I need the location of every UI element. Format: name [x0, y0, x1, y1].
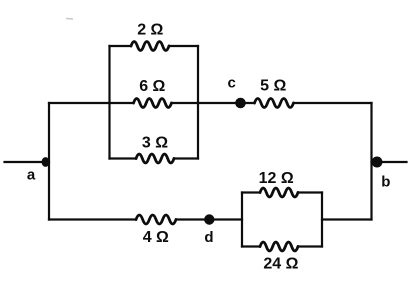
wire: bottom branch left segment — [49, 218, 136, 220]
node c junction dot — [235, 98, 246, 109]
svg-text:4 Ω: 4 Ω — [143, 229, 169, 246]
resistor 2-ohm — [131, 42, 169, 51]
wire: middle horizontal from 5-ohm to right corner — [294, 102, 372, 104]
svg-text:d: d — [204, 229, 213, 246]
svg-text:12 Ω: 12 Ω — [259, 170, 294, 187]
wire: 2-ohm row connectors — [110, 45, 199, 47]
wire: bottom parallel block left bus — [241, 193, 243, 247]
node b junction dot — [372, 157, 383, 168]
wire: middle horizontal (6-ohm branch feed, left) — [49, 102, 134, 104]
resistor 5-ohm — [255, 99, 294, 108]
stray scan smudge top-left — [66, 18, 73, 21]
svg-text:3 Ω: 3 Ω — [142, 135, 168, 152]
wire: block to right vertical — [322, 218, 372, 220]
svg-text:6 Ω: 6 Ω — [139, 78, 165, 95]
wire: middle horizontal between 6-ohm and node c — [172, 102, 255, 104]
wire: top parallel block left bus — [108, 46, 110, 159]
wire: 12-ohm row connectors — [242, 191, 322, 193]
wire: left lead to node a — [5, 161, 50, 163]
svg-text:24 Ω: 24 Ω — [263, 255, 298, 272]
resistor 6-ohm — [134, 99, 172, 108]
resistor 3-ohm — [136, 154, 174, 163]
wire: left vertical a riser — [48, 103, 50, 220]
wire: bottom branch 4-ohm to node d to block — [176, 218, 242, 220]
wire: node b lead right — [372, 161, 407, 163]
svg-text:5 Ω: 5 Ω — [260, 77, 286, 94]
wire: 24-ohm row connectors — [242, 245, 322, 247]
node d junction dot — [204, 214, 214, 224]
svg-text:b: b — [381, 174, 390, 191]
wire: right vertical — [370, 103, 372, 220]
resistor 4-ohm — [136, 215, 176, 224]
resistor 12-ohm — [260, 188, 298, 197]
wire: bottom parallel block right bus — [321, 193, 323, 247]
node a junction dot — [42, 157, 50, 167]
resistor 24-ohm — [260, 242, 298, 251]
svg-text:a: a — [27, 167, 36, 184]
svg-text:c: c — [228, 75, 236, 92]
wire: top parallel block right bus — [197, 46, 199, 159]
svg-text:2 Ω: 2 Ω — [137, 22, 163, 39]
wire: 3-ohm row connectors — [110, 157, 199, 159]
